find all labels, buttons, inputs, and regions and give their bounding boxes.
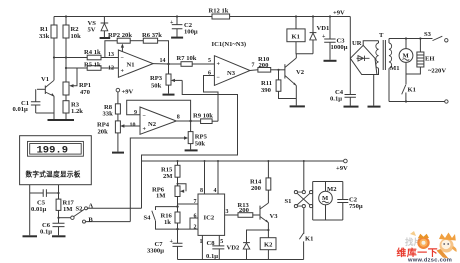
svg-text:UR: UR <box>352 40 362 47</box>
svg-text:3300μ: 3300μ <box>147 248 164 255</box>
svg-text:S2: S2 <box>76 206 84 213</box>
svg-text:VD2: VD2 <box>227 245 241 252</box>
capacitor C6 0.1u <box>40 222 66 236</box>
svg-text:6: 6 <box>194 214 197 220</box>
svg-text:10: 10 <box>130 122 136 128</box>
svg-text:V3: V3 <box>270 213 279 220</box>
diode VD2 <box>227 229 270 260</box>
svg-text:VD1: VD1 <box>317 25 330 32</box>
svg-text:1M: 1M <box>63 206 73 213</box>
relay contact K1 right <box>402 74 416 102</box>
svg-text:390: 390 <box>261 87 272 94</box>
svg-text:R7 10k: R7 10k <box>177 55 197 62</box>
svg-text:R12 1k: R12 1k <box>209 8 229 15</box>
svg-text:M1: M1 <box>390 65 400 72</box>
capacitor C4 0.1u <box>330 58 359 106</box>
wire RP3 wiper sense line <box>142 80 238 208</box>
wire ground rail bottom <box>178 259 304 261</box>
svg-text:R4 1k: R4 1k <box>84 49 101 56</box>
potentiometer RP1 470 <box>63 58 91 101</box>
resistor R11 390 <box>261 69 296 99</box>
relay contact K1 mid <box>299 233 313 260</box>
svg-text:+9V: +9V <box>333 10 345 17</box>
svg-text:1k: 1k <box>164 219 171 226</box>
transistor V2 <box>285 54 305 106</box>
op-amp N1 <box>108 50 153 77</box>
wire display left leg <box>23 185 38 237</box>
IC2 timer <box>178 161 225 260</box>
capacitor C7 3300u <box>147 239 183 260</box>
svg-text:+: + <box>170 20 174 26</box>
svg-text:+: + <box>217 62 221 68</box>
svg-text:50k: 50k <box>151 83 162 90</box>
wire +9V rail lower <box>142 159 349 172</box>
wire N2 feedback loop <box>127 100 201 122</box>
motor M1 <box>390 39 413 75</box>
svg-text:www.dzsc.com: www.dzsc.com <box>407 258 452 263</box>
ground V2 emitter <box>290 105 305 107</box>
svg-text:199.9: 199.9 <box>37 145 69 157</box>
svg-text:+9V: +9V <box>336 165 348 172</box>
heater EH <box>406 39 435 75</box>
node R2 bottom junction <box>65 56 67 58</box>
potentiometer RP2 20k feedback <box>105 32 132 58</box>
svg-text:−: − <box>143 114 147 120</box>
resistor R13 200 <box>225 202 260 217</box>
svg-text:V1: V1 <box>41 76 49 83</box>
svg-text:7: 7 <box>252 63 255 69</box>
resistor R7 10k <box>169 55 215 66</box>
svg-text:33k: 33k <box>103 111 114 118</box>
svg-text:33k: 33k <box>39 33 50 40</box>
wire pin7 node <box>176 197 198 213</box>
zener VS 5V <box>88 17 111 39</box>
svg-text:5V: 5V <box>88 27 96 34</box>
resistor R1 <box>39 17 57 58</box>
svg-text:100μ: 100μ <box>184 29 198 36</box>
transformer T <box>376 32 392 102</box>
potentiometer RP3 50k <box>150 64 182 95</box>
svg-text:K1: K1 <box>292 34 300 41</box>
svg-text:S1: S1 <box>285 198 292 205</box>
svg-text:0.1μ: 0.1μ <box>330 96 342 103</box>
svg-text:RP2 20k: RP2 20k <box>108 32 132 39</box>
switch S1 <box>285 161 313 234</box>
svg-text:200: 200 <box>259 62 270 69</box>
wire emitter bottom <box>36 113 66 119</box>
potentiometer RP5 50k <box>185 121 208 150</box>
svg-text:8: 8 <box>177 115 180 121</box>
svg-text:14: 14 <box>160 58 166 64</box>
svg-text:0.1μ: 0.1μ <box>206 253 218 260</box>
wire mains bottom <box>389 100 448 103</box>
node collector junction <box>53 56 55 58</box>
svg-text:R2: R2 <box>71 26 80 33</box>
potentiometer RP4 20k <box>97 121 140 153</box>
svg-text:S3: S3 <box>424 31 432 38</box>
resistor R16 1k <box>161 212 181 243</box>
resistor R17 1M <box>56 185 74 223</box>
transistor V3 <box>260 190 278 230</box>
svg-text:~220V: ~220V <box>428 68 446 75</box>
svg-text:R11: R11 <box>261 80 272 87</box>
svg-text:C8: C8 <box>207 240 216 247</box>
svg-text:R6 37k: R6 37k <box>142 32 162 39</box>
svg-text:5: 5 <box>208 58 211 64</box>
svg-text:RP4: RP4 <box>97 122 110 129</box>
svg-text:V2: V2 <box>296 69 305 76</box>
svg-text:5: 5 <box>220 239 223 245</box>
svg-text:1M: 1M <box>156 193 166 200</box>
capacitor C1 <box>13 89 41 113</box>
wire RP5 wiper set line B <box>86 136 189 221</box>
svg-text:数字式温度显示板: 数字式温度显示板 <box>26 170 81 179</box>
svg-text:7: 7 <box>194 199 197 205</box>
wire N3 pin6 jog <box>204 76 219 122</box>
svg-text:3: 3 <box>226 209 229 215</box>
svg-text:2M: 2M <box>163 173 173 180</box>
resistor R14 200 <box>250 161 271 192</box>
svg-text:K1: K1 <box>408 87 416 94</box>
svg-text:10k: 10k <box>71 33 82 40</box>
svg-text:+: + <box>121 69 125 75</box>
capacitor C8 0.1u <box>206 235 224 260</box>
wire mains top <box>389 37 433 39</box>
svg-text:470: 470 <box>80 89 91 96</box>
capacitor C5 0.01u <box>30 189 59 213</box>
svg-text:20k: 20k <box>98 129 109 136</box>
svg-text:1000μ: 1000μ <box>331 44 348 51</box>
svg-text:13: 13 <box>108 52 114 58</box>
diode VD1 <box>310 15 330 53</box>
resistor R6 37k <box>130 32 168 64</box>
svg-text:M2: M2 <box>327 186 337 193</box>
svg-text:N2: N2 <box>148 121 157 128</box>
transistor V1 <box>37 58 55 114</box>
resistor R3 1.2k <box>63 101 83 115</box>
svg-text:S4: S4 <box>144 215 152 222</box>
wire S2 A line <box>88 207 142 209</box>
svg-text:12: 12 <box>108 66 114 72</box>
svg-text:EH: EH <box>425 56 435 63</box>
motor M2 loop <box>313 182 343 221</box>
display board box <box>20 136 92 185</box>
node RP1 top wiper tie <box>65 67 67 69</box>
node R2 top junction <box>65 15 67 17</box>
svg-text:IC1(N1~N3): IC1(N1~N3) <box>212 41 247 48</box>
wire sensor node to R4 <box>54 57 87 59</box>
svg-text:200: 200 <box>251 185 262 192</box>
svg-text:+: + <box>322 34 326 40</box>
bridge rectifier UR <box>350 17 380 107</box>
switch S4 <box>144 207 178 230</box>
svg-text:RP5: RP5 <box>195 134 208 141</box>
svg-text:R9 10k: R9 10k <box>193 113 213 120</box>
svg-text:+9V: +9V <box>122 89 134 96</box>
svg-text:IC2: IC2 <box>204 215 215 222</box>
svg-text:200: 200 <box>239 207 250 214</box>
svg-text:+: + <box>143 127 147 133</box>
wire top supply rail <box>54 16 350 18</box>
svg-text:R5 1k: R5 1k <box>84 62 101 69</box>
switch S2 <box>57 203 93 224</box>
node N1 output pin 14 <box>153 58 170 65</box>
svg-text:1.2k: 1.2k <box>71 108 83 115</box>
svg-text:0.01μ: 0.01μ <box>31 206 47 213</box>
svg-text:8: 8 <box>200 188 203 194</box>
resistor R8 33k <box>103 104 121 121</box>
resistor R15 2M <box>161 161 180 180</box>
potentiometer RP6 1M <box>152 177 186 199</box>
svg-text:0.01μ: 0.01μ <box>13 106 29 113</box>
label IC1 <box>212 41 247 48</box>
resistor R9 10k <box>193 113 218 124</box>
ground V1 stage <box>48 119 75 121</box>
svg-text:K1: K1 <box>305 236 313 243</box>
capacitor C2 750u <box>337 197 363 211</box>
label +9V top <box>333 10 345 17</box>
svg-text:R1: R1 <box>40 26 48 33</box>
op-amp N3 <box>208 56 255 86</box>
svg-text:750μ: 750μ <box>349 203 363 210</box>
svg-text:−: − <box>121 56 125 62</box>
relay K2 coil <box>260 230 276 260</box>
relay K1 coil <box>287 15 313 53</box>
svg-text:N1: N1 <box>127 62 135 69</box>
terminal +9V mid-left <box>116 88 133 104</box>
capacitor C3 1000u <box>322 15 348 60</box>
svg-text:K2: K2 <box>264 242 273 249</box>
svg-text:0.1μ: 0.1μ <box>40 229 52 236</box>
svg-text:50k: 50k <box>195 141 206 148</box>
resistor R12 1k <box>209 8 230 20</box>
svg-text:+: + <box>170 239 174 245</box>
svg-text:B: B <box>88 217 93 224</box>
svg-text:N3: N3 <box>227 70 236 77</box>
svg-text:RP3: RP3 <box>150 75 163 82</box>
resistor R10 200 <box>250 56 285 72</box>
svg-text:4: 4 <box>214 188 217 194</box>
resistor R4 1k <box>84 49 118 60</box>
svg-text:−: − <box>217 75 221 81</box>
switch S3 <box>424 31 448 42</box>
label 220V <box>428 68 446 75</box>
resistor R5 1k <box>66 62 118 71</box>
op-amp N2 <box>130 107 180 134</box>
svg-text:RP1: RP1 <box>79 82 91 89</box>
capacitor C2 100u <box>170 15 198 37</box>
resistor R2 <box>63 17 81 58</box>
watermark logo <box>397 231 457 263</box>
svg-text:T: T <box>379 32 384 39</box>
